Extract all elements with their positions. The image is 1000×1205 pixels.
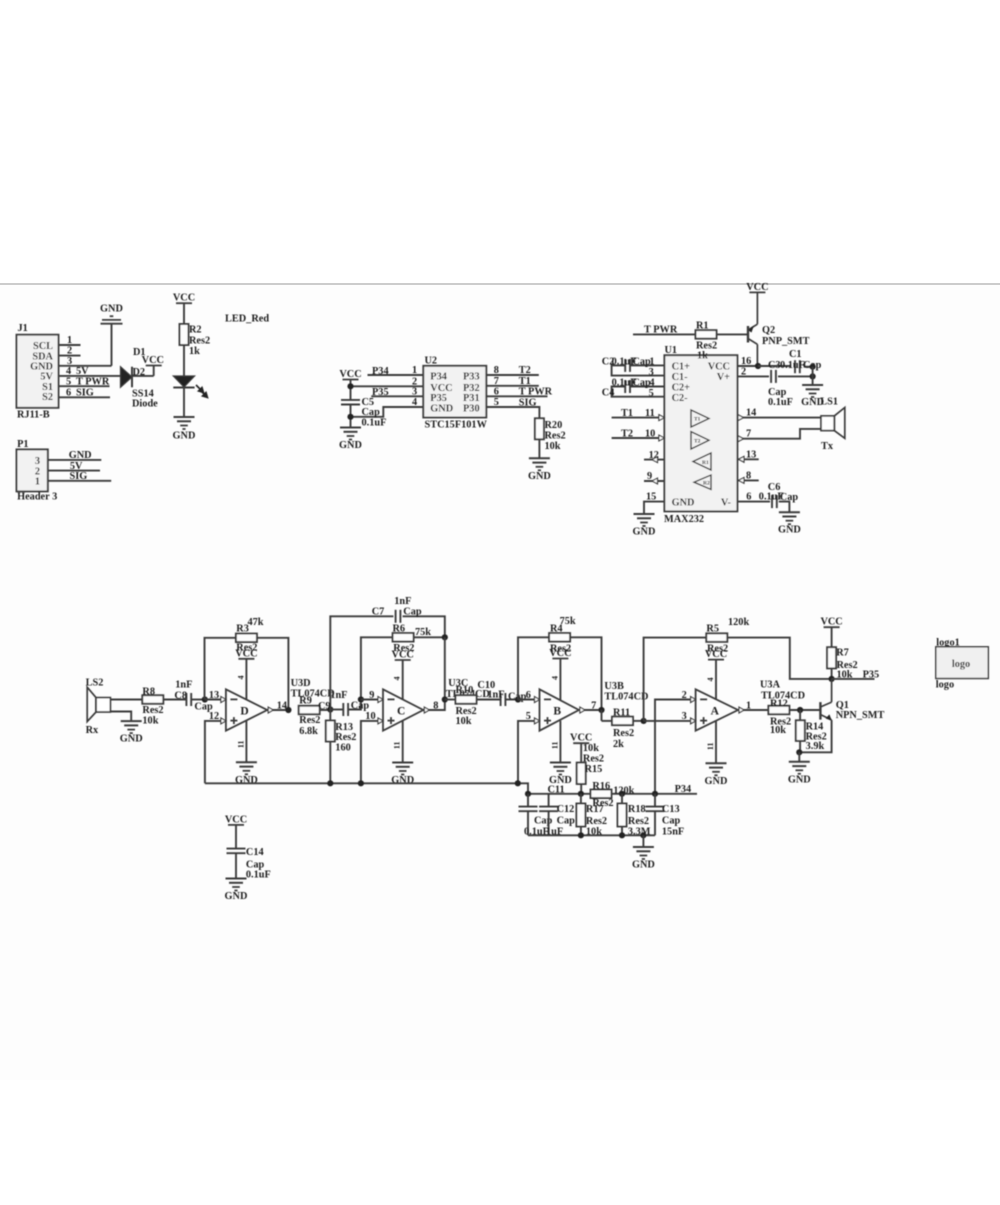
svg-text:VCC: VCC [708,361,730,372]
svg-text:0.1uF: 0.1uF [246,869,271,880]
svg-text:3: 3 [649,367,654,378]
capacitor C9 1nF [318,690,369,716]
svg-text:Rx: Rx [86,725,99,736]
svg-text:Cap: Cap [534,816,553,827]
svg-text:Diode: Diode [132,399,158,410]
svg-text:P35: P35 [863,670,880,681]
capacitor C2 0.1uF at U1 pins 1-3 [602,357,665,378]
VCC symbol above R2 [173,293,195,304]
svg-text:R12: R12 [770,699,788,710]
junction R11 R5 pin3 node [641,718,647,724]
svg-text:PNP_SMT: PNP_SMT [762,336,810,347]
wire R3 feedback loop left [205,638,236,700]
svg-text:P30: P30 [463,404,480,415]
ground symbol below R14 [788,762,811,786]
junction C13 pin2 wire [652,791,658,797]
svg-text:C11: C11 [548,784,565,795]
op-amp D power wires [237,659,247,763]
ground symbol right of U1 [801,385,824,408]
capacitor C13 15nF [646,794,685,838]
junction ground stem [640,832,646,838]
LED D3 LED_Red [173,376,207,398]
svg-text:SIG: SIG [70,471,88,482]
svg-text:7: 7 [591,700,596,711]
junction op-amp C output [442,696,448,702]
U1 pin 8 wire [737,471,758,484]
capacitor C12 1uF [539,794,575,838]
ground symbol below op-amp D [235,762,258,786]
wire LED to ground [183,388,185,418]
U1 pin 12 wire [644,450,664,463]
junction C5 to pin4 rail [347,414,353,420]
junction C1 C3 ground node [810,364,816,370]
resistor R14 3.9k [796,710,827,752]
svg-text:logo: logo [936,680,954,691]
svg-text:C1+: C1+ [672,361,691,372]
wire R5 loop right to P35 node [727,638,831,679]
diode D1 SS14 [121,347,159,410]
P1 pin 2 wire 5V net [48,461,100,472]
svg-text:T PWR: T PWR [76,376,110,387]
svg-text:1k: 1k [189,346,200,357]
svg-text:P33: P33 [463,372,480,383]
svg-text:P34: P34 [430,372,447,383]
svg-text:J1: J1 [18,323,28,334]
svg-text:P34: P34 [675,784,692,795]
capacitor C5 0.1uF [341,396,386,429]
svg-text:Cap: Cap [557,816,576,827]
svg-text:GND: GND [632,860,655,871]
node at op-amp C inverting input [358,696,364,702]
svg-text:10k: 10k [456,716,472,727]
transistor Q2 PNP_SMT [748,292,810,366]
svg-text:Cap: Cap [662,816,681,827]
svg-text:C1-: C1- [672,372,689,383]
wire R11 to node [633,720,644,722]
VCC symbol above R15 [570,733,592,744]
transistor Q1 NPN_SMT [799,679,884,752]
resistor R4 75k feedback [549,616,576,655]
junction op-amp C plus at rail [358,780,364,786]
svg-text:8: 8 [433,700,438,711]
svg-text:B: B [553,706,561,718]
svg-text:Cap: Cap [362,407,381,418]
U1 internal buffer R2 [694,475,711,490]
svg-text:11: 11 [706,743,715,751]
svg-text:2: 2 [741,366,746,377]
ground symbol at J1 pin3 [100,304,123,366]
svg-text:VCC: VCC [549,648,571,659]
U2 pin 7 wire T1 net [486,376,539,387]
svg-text:10k: 10k [583,743,599,754]
wire R6 loop right [414,636,445,638]
svg-text:9: 9 [647,471,652,482]
svg-text:R7: R7 [836,648,849,659]
svg-text:10: 10 [645,428,655,439]
svg-text:R17: R17 [586,804,604,815]
ground symbol at LS2 [120,721,143,745]
junction R17 bottom [578,832,584,838]
resistor R13 160 [326,710,357,784]
wire P35 stub [832,670,880,681]
svg-text:VCC: VCC [820,617,842,628]
svg-text:2k: 2k [613,739,624,750]
svg-text:11: 11 [551,742,560,750]
junction C11 corner [525,791,531,797]
svg-text:R15: R15 [585,764,603,775]
ground symbol below LED [173,417,196,442]
svg-text:5: 5 [649,388,654,399]
svg-text:R1: R1 [702,460,709,466]
svg-text:S2: S2 [42,392,53,403]
svg-text:1: 1 [412,365,417,376]
U1 pin 9 wire [644,471,664,484]
svg-text:U2: U2 [425,356,438,367]
VCC symbol above op-amp A [705,649,727,660]
ground symbol at U1 pin15 [633,514,656,538]
svg-text:VCC: VCC [746,282,768,293]
svg-text:C2+: C2+ [672,382,691,393]
svg-text:160: 160 [335,742,350,753]
node A junction R9 C7 R13 C9 [327,706,333,712]
wire R9 to node A [320,709,331,711]
U3A pin 3 input wire [644,711,696,724]
svg-text:P31: P31 [463,393,480,404]
junction R15 R16 R17 [578,791,584,797]
svg-text:4: 4 [412,397,417,408]
wire LS2 to ground [110,712,131,722]
J1 pin 1 wire [59,335,81,346]
svg-text:C14: C14 [246,847,264,858]
op-amp U3B TL074CD [540,681,649,731]
svg-text:Res2: Res2 [583,753,604,764]
svg-text:12: 12 [649,450,659,461]
wire R12 to Q1 base [789,709,820,711]
op-amp C power wires [393,660,403,763]
svg-text:6: 6 [746,491,751,502]
node at op-amp B inverting input [515,696,521,702]
U3B pin 7 output wire [579,700,602,713]
svg-text:1nF: 1nF [394,596,411,607]
svg-text:0.1uF: 0.1uF [780,360,805,371]
svg-text:4: 4 [551,676,560,680]
junction R14 Q1 emitter [796,749,802,755]
resistor R16 120k [591,781,635,809]
op-amp U3D TL074CD [226,678,335,731]
wire R1 to Q2 base [717,333,749,335]
svg-text:T2: T2 [694,439,701,445]
svg-text:T PWR: T PWR [519,387,553,398]
svg-text:4: 4 [237,676,246,680]
op-amp B power wires [551,659,561,763]
wire bottom rail of network [528,834,655,836]
U3D pin 13 input wire [205,690,226,703]
svg-text:TL074CD: TL074CD [604,691,648,702]
svg-text:P35: P35 [430,393,447,404]
VCC symbol left of U2 [339,369,361,396]
resistor R17 10k [576,794,607,838]
svg-text:Res2: Res2 [613,728,634,739]
svg-text:R1: R1 [696,321,709,332]
svg-text:D: D [240,706,248,718]
wire R8 to C8 [163,699,186,701]
resistor R8 10k [142,687,163,727]
svg-text:GND: GND [120,734,143,745]
svg-text:13: 13 [746,450,756,461]
resistor R20 10k [535,418,566,452]
resistor R10 10k [445,685,477,727]
U1 pin 7 wire to LS1 [737,428,821,441]
connector J1 RJ11-B [17,323,59,421]
svg-text:3: 3 [682,711,687,722]
P1 pin 3 wire GND net [48,450,102,461]
resistor R6 75k feedback [393,624,432,655]
svg-text:TL074CD: TL074CD [291,688,335,699]
ground symbol below op-amp B [549,763,572,787]
wire LS2 to R8 [110,699,142,701]
svg-text:GND: GND [672,497,695,508]
svg-text:2: 2 [682,690,687,701]
svg-text:Res2: Res2 [142,705,163,716]
svg-text:P35: P35 [372,387,389,398]
svg-text:C: C [397,706,405,718]
U3A pin 1 output wire [738,700,768,713]
svg-text:6: 6 [526,690,531,701]
svg-text:R5: R5 [706,624,719,635]
svg-text:Header 3: Header 3 [17,492,57,503]
svg-text:R11: R11 [613,707,630,718]
svg-text:3.9k: 3.9k [806,741,825,752]
P1 pin 1 wire SIG net [48,471,111,482]
svg-text:STC15F101W: STC15F101W [425,420,488,431]
svg-text:5V: 5V [76,366,89,377]
wire R3 feedback loop right [257,638,289,710]
wire R4 loop right [570,637,601,710]
U1 pin 14 wire to LS1 [737,408,821,421]
U2 pin 4 wire to GND rail [351,397,423,417]
svg-text:C9: C9 [318,701,331,712]
wire R6 loop left [361,637,393,699]
VCC symbol at D1 [142,355,164,366]
U2 pin 2 wire VCC [351,376,424,387]
IC U1 MAX232 [664,345,737,525]
resistor R5 120k feedback [706,617,749,655]
svg-text:C4: C4 [602,387,615,398]
capacitor C14 0.1uF [227,825,271,880]
svg-text:5: 5 [494,397,499,408]
junction Q2 collector pin16 [755,363,761,369]
op-amp U3C TL074CD [383,678,490,731]
U3C pin 8 output wire [423,700,445,713]
svg-text:11: 11 [645,408,655,419]
svg-text:GND: GND [528,471,551,482]
capacitor C7 1nF outer feedback [330,596,445,710]
svg-text:VCC: VCC [235,648,257,659]
svg-text:RJ11-B: RJ11-B [17,410,50,421]
junction R18 bottom [619,832,625,838]
resistor R2 1k [180,324,211,357]
U3B pin 5 input wire [518,711,540,783]
connector P1 Header 3 [17,439,58,502]
U3C pin 9 input wire [361,690,383,703]
svg-text:U3D: U3D [291,678,311,689]
ground symbol below op-amp C [391,763,414,787]
svg-text:7: 7 [746,428,751,439]
svg-text:U3B: U3B [604,681,624,692]
svg-text:1nF: 1nF [175,680,192,691]
capacitor C11 0.1uF [519,784,565,837]
svg-text:T PWR: T PWR [644,325,678,336]
svg-text:P34: P34 [372,366,389,377]
wire R4 loop left [518,637,549,699]
svg-text:5: 5 [526,711,531,722]
svg-text:VCC: VCC [225,814,247,825]
wire network to ground [642,835,644,847]
svg-text:15nF: 15nF [662,826,684,837]
resistor R9 6.8k [299,696,321,738]
svg-text:Q2: Q2 [762,325,775,336]
op-amp A power wires [706,660,716,764]
svg-text:Res2: Res2 [299,715,320,726]
svg-text:4: 4 [706,678,715,682]
svg-text:GND: GND [705,776,728,787]
resistor R15 10k [577,743,604,794]
svg-text:7: 7 [494,376,499,387]
svg-text:SIG: SIG [76,387,94,398]
wire VCC to R7 [831,627,833,647]
svg-text:T2: T2 [621,428,633,439]
U2 pin 6 wire T_PWR net [486,387,552,398]
U1 pin 10 wire T2 net [612,428,665,441]
resistor R1 1k [696,321,718,362]
svg-text:5: 5 [66,376,71,387]
wire B output down to R11 [601,710,603,721]
junction R13 at rail [327,780,333,786]
svg-text:R10: R10 [456,685,474,696]
svg-text:1: 1 [746,700,751,711]
J1 pin 2 wire [59,346,81,357]
resistor R11 2k [602,707,635,750]
svg-text:3: 3 [35,456,40,467]
wire R2 to LED [183,345,185,376]
op-amp U3A TL074CD [696,679,805,730]
U3D pin 14 output wire [267,700,288,713]
ground symbol below op-amp A [705,763,728,787]
wire to ground right of U1 [812,367,814,385]
svg-text:C7: C7 [372,607,385,618]
svg-text:U3A: U3A [760,679,781,690]
U2 pin 3 wire P35 net [371,387,423,398]
svg-text:6: 6 [494,387,499,398]
wire bias rail [205,783,528,794]
U1 internal buffer T2 [691,432,709,449]
wire R5 loop left [644,638,707,721]
speaker LS1 Tx [820,397,845,452]
svg-text:V+: V+ [717,372,730,383]
U1 internal buffer T1 [691,410,709,427]
ground symbol below C14 [225,879,248,903]
svg-text:GND: GND [173,431,196,442]
svg-text:C8: C8 [174,691,187,702]
svg-text:Res2: Res2 [335,732,356,743]
svg-text:11: 11 [393,742,402,750]
svg-text:Cap: Cap [780,492,799,503]
svg-text:GND: GND [778,525,801,536]
IC U2 STC15F101W [423,356,487,431]
U1 internal buffer R1 [693,453,711,470]
svg-text:1k: 1k [697,351,708,362]
wire R14 to ground [798,752,800,762]
svg-text:U1: U1 [665,345,678,356]
svg-text:LS2: LS2 [86,678,104,689]
ground symbol below C6 [778,512,801,536]
svg-text:LED_Red: LED_Red [225,314,269,325]
wire R7 to P35 node [831,668,833,679]
VCC symbol above R7 [820,617,842,628]
wire C7 R6 to output node C [444,637,446,699]
junction R6 right [442,634,448,640]
svg-text:0.1uF: 0.1uF [362,418,387,429]
junction U2 VCC rail [347,383,353,389]
svg-text:47k: 47k [248,617,264,628]
junction op-amp B output [598,707,604,713]
resistor R7 10k [827,647,858,680]
capacitor C8 1nF [174,680,213,713]
svg-text:A: A [711,706,720,718]
svg-text:Tx: Tx [821,441,834,452]
capacitor C10 1nF [477,680,526,706]
svg-text:GND: GND [100,304,123,315]
svg-text:T1: T1 [694,417,701,423]
svg-text:T2: T2 [519,365,531,376]
U1 pin 13 wire [737,450,758,463]
svg-text:VCC: VCC [392,650,414,661]
svg-text:GND: GND [225,891,248,902]
ground symbol below C5 [339,428,362,452]
junction Q1 base R14 [797,707,803,713]
U1 pin 2 wire V+ and capacitor C3 0.1uF [737,360,821,408]
U2 pin 1 wire P34 net [368,365,424,377]
U1 pin 6 wire V- and capacitor C6 0.1uF [737,482,798,512]
svg-text:10k: 10k [545,441,561,452]
svg-text:R8: R8 [142,687,155,698]
svg-text:3: 3 [412,387,417,398]
svg-text:1nF: 1nF [330,690,347,701]
U2 pin 5 wire SIG net to R20 [486,397,539,418]
svg-text:1: 1 [67,335,72,346]
U3D pin 12 input wire [205,711,226,783]
VCC symbol above op-amp D [235,648,257,659]
svg-text:NPN_SMT: NPN_SMT [836,710,885,721]
svg-text:5V: 5V [40,372,53,383]
svg-text:logo: logo [952,659,970,670]
svg-text:C13: C13 [662,804,680,815]
svg-text:1: 1 [35,477,40,488]
svg-text:Cap: Cap [403,607,422,618]
svg-text:VCC: VCC [142,355,164,366]
svg-text:GND: GND [339,440,362,451]
svg-text:GND: GND [788,774,811,785]
svg-text:V-: V- [721,497,732,508]
wire C8 to node D [191,699,205,701]
U3A pin 2 input wire [655,690,696,794]
junction R16 R18 [619,791,625,797]
svg-text:14: 14 [746,408,756,419]
svg-text:C3: C3 [768,360,781,371]
wire R10 to C10 [477,699,501,701]
U1 pin 16 wire VCC [737,356,758,367]
svg-text:6: 6 [66,387,71,398]
